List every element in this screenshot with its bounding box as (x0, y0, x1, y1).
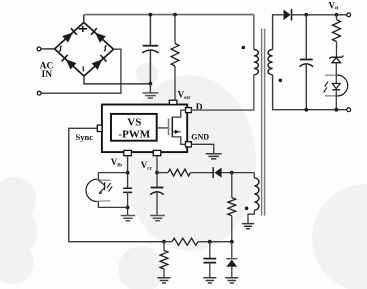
capacitor C4 (Vcc electrolytic) (151, 187, 164, 189)
pin Vstr (top) (169, 100, 177, 104)
transformer T1 auxiliary winding (254, 178, 259, 210)
pin Vfb (bottom left) (124, 150, 132, 155)
wire startup resistor to Vstr pin (174, 66, 176, 100)
wire sync net (left loop) (69, 128, 164, 241)
node bottom diode (230, 240, 234, 244)
bridge ~ mark left (59, 46, 62, 52)
wire resistor to diode (191, 172, 214, 174)
terminal Vo- (347, 108, 351, 112)
svg-text:IN: IN (42, 70, 53, 80)
node bottom cap (208, 240, 212, 244)
node Vcc (155, 171, 159, 175)
bridge diode D4 (bottom-right) (92, 59, 103, 69)
wire secondary top to output diode (273, 15, 284, 50)
wire opto emitter to ground node (98, 201, 127, 207)
bridge + mark (79, 26, 88, 32)
node output cap top (304, 13, 308, 17)
AC input terminal bottom (37, 91, 41, 95)
optocoupler LED triangle (332, 84, 340, 89)
transformer T1 secondary winding (268, 50, 273, 75)
optocoupler transistor internals (98, 180, 104, 193)
wire Vcc pin down (156, 156, 158, 187)
svg-text:-PWM: -PWM (118, 128, 150, 140)
node rail-resistor (173, 13, 177, 17)
capacitor C5 (bottom) (209, 242, 211, 259)
ground bottom middle (203, 278, 216, 283)
diode D6 (Vcc, pointing left) (212, 167, 214, 178)
node Vfb-opto (126, 171, 130, 175)
ground Vfb (121, 216, 136, 221)
transformer T1 core (262, 29, 265, 216)
transistor Q1 gate wire (157, 127, 169, 129)
node feedback branch bottom (334, 108, 338, 112)
wire opto collector to Vfb (98, 173, 127, 180)
node feedback branch top (335, 13, 339, 17)
wire drain to primary (191, 75, 253, 110)
transistor Q1 drain stub (172, 110, 185, 117)
node bulk ground (149, 82, 153, 86)
resistor R2 (feedback, output) (336, 15, 338, 20)
transistor Q1 channel bar (171, 117, 173, 137)
bridge diode D3 (bottom-left) (66, 59, 77, 69)
background pale blob bottom middle (118, 246, 164, 289)
ground primary (149, 84, 151, 93)
transistor Q1 gate bar (168, 119, 170, 136)
capacitor C3 (Vfb filter) (123, 188, 132, 192)
bridge rectifier diamond (55, 22, 114, 76)
optocoupler LED emission arrows (324, 82, 328, 92)
transistor Q1 body arrow (172, 131, 181, 133)
wire bridge bottom to ground node (84, 76, 150, 84)
wire zener to opto LED (335, 63, 337, 84)
pin Vcc (bottom mid) (153, 150, 161, 155)
background pale blob small (136, 63, 158, 85)
IC U1 inner block VS-PWM (111, 114, 157, 141)
bridge ~ mark right (104, 46, 107, 52)
wire output cap branch top (305, 15, 307, 59)
svg-text:D: D (196, 103, 203, 113)
svg-text:Sync: Sync (76, 132, 94, 142)
wire rail to primary top (253, 15, 255, 50)
ground bottom left (158, 278, 171, 283)
wire GND pin to ground (191, 144, 213, 153)
resistor R5 (bottom horizontal) (164, 241, 172, 243)
wire output top rail (292, 14, 348, 16)
wire aux node to divider resistor (231, 173, 233, 198)
node aux winding top (230, 171, 234, 175)
pin GND (right bottom) (186, 142, 192, 147)
wire rail to filter cap (149, 15, 151, 46)
transformer T1 primary winding (254, 50, 259, 75)
transformer T1 secondary phase dot (279, 79, 283, 83)
transformer T1 aux phase dot (245, 207, 249, 211)
resistor R3 (Vcc series) (168, 169, 191, 176)
wire AC top terminal to bridge (41, 48, 55, 50)
wire filter cap to ground node (149, 51, 151, 84)
background pale blob left middle join (0, 201, 37, 261)
wire output cap branch bottom (305, 64, 307, 110)
node bottom left (162, 240, 166, 244)
top rail (DC bus) (84, 14, 254, 16)
wire Vcc cap to ground (156, 192, 158, 215)
ground Vcc (150, 216, 165, 221)
bridge - mark (82, 66, 84, 71)
op IC U1 outer box (VS-PWM controller with MOSFET) (102, 105, 187, 153)
background pale blob left lower (0, 242, 34, 284)
optocoupler LED (output side) circle (336, 75, 347, 96)
wire opto LED to return rail (335, 90, 337, 110)
transformer T1 primary phase dot (242, 46, 246, 50)
wire Vcc node to resistor (157, 172, 168, 174)
pin D (right top) (186, 108, 192, 113)
wire bridge top to rail (83, 15, 85, 23)
ground bottom right (225, 278, 238, 283)
pin Sync (left) (97, 125, 102, 131)
node rail-cap (149, 13, 153, 17)
wire diode to aux node (222, 172, 255, 174)
resistor R1 (startup, rail to Vstr) (171, 44, 179, 67)
capacitor C1 (bulk electrolytic) (143, 45, 159, 47)
bridge diode D2 (right-top) (95, 33, 106, 43)
node opto emitter junction (126, 206, 130, 210)
background pale blob bottom right (312, 184, 367, 289)
terminal Vo+ (347, 13, 351, 17)
svg-text:GND: GND (191, 132, 209, 141)
bridge diode D1 (left-top) (62, 33, 72, 43)
wire divider resistor to bottom node (231, 216, 233, 242)
resistor R4 (aux divider) (228, 198, 236, 216)
wire AC bottom terminal to bridge right vertex (41, 49, 121, 93)
zener diode Z1 (329, 56, 343, 59)
background pale blob center (124, 75, 256, 251)
wire Vfb cap to ground (127, 192, 129, 215)
resistor R6 (bottom left vertical) (163, 242, 165, 251)
node output cap bottom (304, 108, 308, 112)
optocoupler light arrows (107, 183, 112, 191)
AC input terminal top (37, 47, 41, 51)
diode D5 (output rectifier) (284, 10, 291, 21)
diode D7 (bottom, pointing up) (231, 242, 233, 259)
wire secondary bottom to output return (273, 75, 347, 110)
optocoupler phototransistor circle (86, 179, 97, 201)
wire Vfb pin down (127, 156, 129, 188)
svg-text:VS: VS (127, 116, 141, 128)
wire aux winding bottom to ground (248, 210, 254, 223)
ground IC GND (206, 154, 222, 159)
capacitor C2 (output electrolytic) (300, 59, 313, 61)
wire rail to startup resistor (174, 15, 176, 44)
wire aux node to winding (253, 173, 255, 178)
background pale blob left upper (0, 177, 36, 221)
ground aux winding (242, 224, 254, 229)
transistor Q1 source stub (172, 137, 185, 144)
